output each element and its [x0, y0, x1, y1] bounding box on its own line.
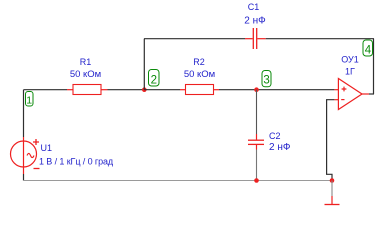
resistor R2 — [180, 57, 219, 95]
node 2 — [149, 70, 160, 87]
wire node2 up — [143, 39, 145, 90]
svg-text:1: 1 — [26, 95, 32, 107]
wire R1 to node2 — [108, 89, 145, 91]
junction ground — [330, 178, 335, 183]
svg-text:C1: C1 — [248, 2, 260, 12]
capacitor C1 — [244, 2, 266, 49]
ground — [325, 181, 340, 205]
node 3 — [262, 71, 271, 87]
svg-text:ОУ1: ОУ1 — [341, 55, 359, 65]
svg-text:R1: R1 — [80, 57, 92, 67]
capacitor C2 — [248, 131, 291, 153]
bottom wire — [23, 180, 332, 182]
junction node 2 — [142, 87, 147, 92]
wire source to bottom — [23, 174, 25, 181]
source U1 — [11, 137, 114, 174]
node 4 — [363, 40, 373, 56]
svg-text:1Г: 1Г — [345, 67, 355, 77]
wire opamp output — [369, 93, 374, 95]
svg-text:3: 3 — [263, 75, 269, 87]
svg-text:4: 4 — [365, 44, 372, 56]
svg-text:U1: U1 — [41, 143, 53, 153]
junction node 3 — [254, 87, 259, 92]
wire node3 down — [256, 90, 258, 134]
svg-text:50 кОм: 50 кОм — [70, 69, 101, 80]
wire top right — [266, 38, 374, 40]
wire C2 down — [256, 150, 258, 182]
resistor R1 — [67, 57, 108, 95]
junction C2 bottom — [254, 178, 259, 183]
wire opamp minus loop — [327, 100, 335, 181]
svg-text:C2: C2 — [269, 131, 281, 141]
wire R2 to opamp plus — [219, 89, 334, 91]
svg-text:2 нФ: 2 нФ — [269, 142, 291, 153]
svg-text:2: 2 — [151, 75, 157, 87]
svg-text:50 кОм: 50 кОм — [184, 69, 215, 80]
wire node1 to R1 — [24, 89, 68, 91]
wire node2 to R2 — [144, 89, 180, 91]
wire top left — [144, 38, 245, 40]
svg-text:1 В / 1 кГц / 0 град: 1 В / 1 кГц / 0 град — [39, 156, 114, 166]
svg-text:2 нФ: 2 нФ — [244, 16, 266, 27]
wire right down — [373, 39, 375, 94]
wire node1 down — [23, 90, 25, 137]
op-amp OY1 — [334, 55, 369, 110]
node 1 — [26, 92, 34, 107]
svg-text:R2: R2 — [193, 57, 205, 67]
